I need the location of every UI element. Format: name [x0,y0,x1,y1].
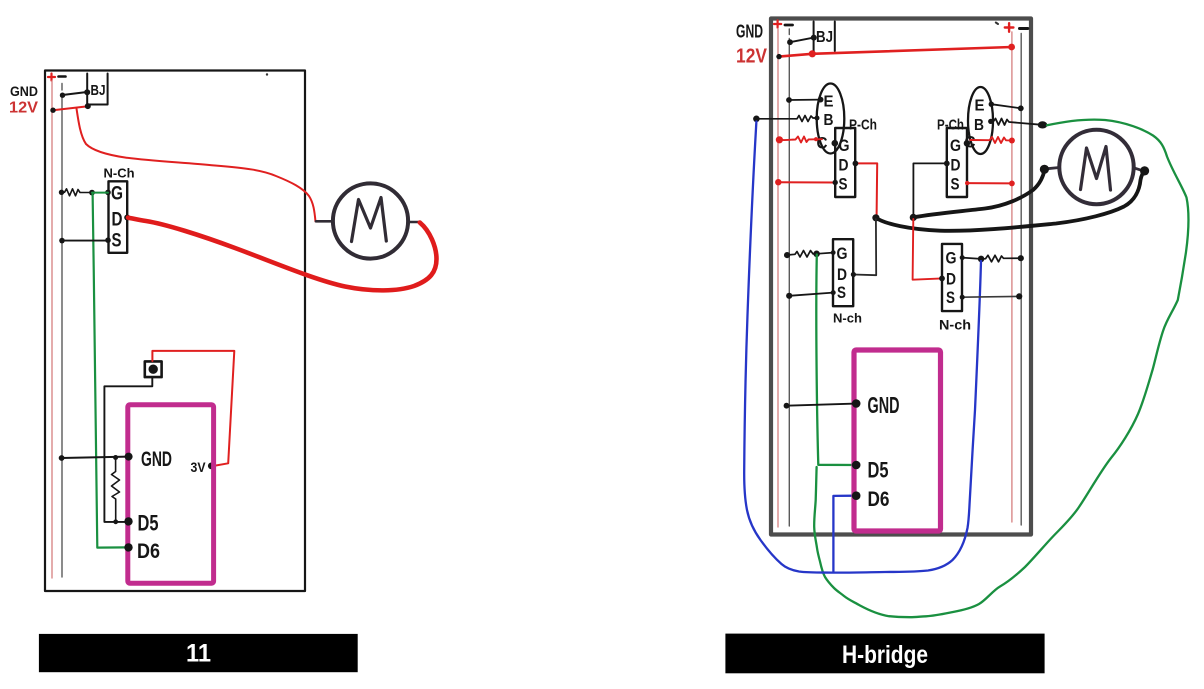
svg-text:E: E [975,98,985,115]
resistor R8 (gate) with wire to GND rail [962,255,1021,261]
junction dot (red) [1009,181,1015,187]
junction dot [784,252,790,258]
resistor R1 (gate) [62,189,93,196]
resistor R7 (gate) with wire to GND rail [787,251,833,258]
motor M glyph [352,198,387,242]
resistor R2 (pull-down) [112,458,120,522]
svg-text:N-ch: N-ch [833,311,862,326]
wire D to node B (red) [913,219,942,280]
svg-text:D6: D6 [868,488,890,511]
stray ink speck [996,23,998,25]
enclosure box (H-bridge) [771,19,1031,535]
svg-text:D: D [112,210,123,231]
svg-text:S: S [839,175,848,194]
wire GND rail to Arduino GND [787,404,857,406]
wire D to node A [853,219,876,275]
plus terminal mark (top-left) [774,20,781,27]
svg-text:12V: 12V [736,46,768,68]
junction dot (red) [814,137,818,141]
junction dot (resistor top) [113,455,118,460]
svg-text:S: S [112,231,122,252]
junction dot [84,89,90,95]
resistor R4 (collector, red) [779,137,822,143]
wire gate node to G (green) [92,192,108,194]
wire gate node to D6 (green) [93,193,126,548]
drain pin dot [124,215,130,221]
emitter pin dot [818,97,824,103]
motor M glyph [1081,147,1111,191]
junction dot (red) [809,50,816,57]
wire motor right terminal to drain (thick red) [128,218,437,291]
svg-text:N-Ch: N-Ch [104,166,135,181]
svg-text:B: B [974,117,984,134]
junction dot [786,293,792,299]
wire GND rail to E [789,99,821,101]
motor right terminal dot [1140,166,1149,175]
svg-text:GND: GND [868,392,900,418]
MOSFET Q6 body (left P-channel) [835,128,855,197]
svg-text:GND: GND [141,448,172,471]
minus terminal mark (top-left) [785,24,793,27]
D5 pin dot [124,517,132,525]
plus terminal mark (top-right) [1005,23,1014,32]
svg-text:G: G [946,249,957,268]
motor right lead [1134,168,1142,171]
junction dot [784,403,790,409]
svg-text:G: G [837,244,848,263]
junction dot [59,190,64,195]
svg-text:C: C [817,134,828,153]
svg-text:3V: 3V [191,459,207,475]
wire GND rail to Arduino GND [62,457,128,458]
svg-text:G: G [839,136,850,155]
wire node B to motor left terminal (thick) [913,170,1044,218]
junction dot (red rail) [776,136,783,143]
battery jack BJ (right) [814,22,835,52]
stray ink speck [266,73,268,75]
transistor Q3 (right PNP) body [968,87,993,154]
D6 pin dot [852,491,861,500]
MOSFET Q7 body (right P-channel) [947,128,967,197]
svg-text:H-bridge: H-bridge [842,641,928,669]
MOSFET Q5 body (right N-channel) [942,244,962,311]
source pin dot [105,237,111,243]
resistor R3 (base, with wire to blue node) [756,116,816,122]
drain pin dot [944,161,950,167]
junction dot (C to G) [832,140,839,147]
wire gate node to D5 (green) [816,255,856,466]
plus terminal mark (left) [48,74,55,81]
MOSFET Q4 body (left N-channel) [833,239,853,306]
GND pin dot [852,399,861,408]
caption bar H-bridge [725,634,1044,674]
junction dot [1018,105,1024,111]
junction dot (red rail) [1009,138,1015,144]
motor M (left) [333,183,408,258]
source pin dot [833,180,838,185]
node A (left bridge midpoint) [872,214,879,221]
svg-text:P-Ch: P-Ch [937,117,964,134]
svg-text:GND: GND [736,22,763,42]
enclosure box (left circuit) [45,71,305,592]
source pin dot [831,290,836,295]
junction dot [787,39,793,45]
Arduino board (magenta, right) [854,350,941,531]
12V bus wire across top (red) [779,47,1012,57]
svg-text:11: 11 [186,640,211,668]
source pin dot [960,295,965,300]
12V rail (red, right side) [1011,32,1013,522]
svg-text:D: D [837,265,847,284]
wire 12V rail to S (red) [778,181,835,183]
base pin dot [988,119,993,124]
wire GND rail to BJ [790,38,814,43]
node dot (blue net, left) [753,116,760,123]
svg-text:G: G [950,136,961,155]
motor left lead [1048,168,1060,169]
svg-text:S: S [946,288,955,307]
junction dot [776,54,781,59]
svg-text:D: D [946,270,956,289]
svg-text:B: B [824,112,834,129]
gate pin dot [105,190,111,196]
junction dot [50,108,55,113]
caption bar 11 [39,634,358,672]
junction dot [811,35,817,41]
drain pin dot [851,272,856,277]
junction dot (red) [965,181,969,185]
wire blue net (right gate node to left base node) [744,122,981,573]
3V pin dot [208,463,215,470]
battery jack BJ (left) [87,74,107,105]
pushbutton cap dot [149,365,158,374]
svg-text:D: D [839,156,849,175]
minus terminal mark (top-right) [1020,27,1028,30]
wire D6 to blue net (blue) [833,496,856,572]
junction dot [1018,255,1024,261]
node B (right bridge midpoint) [910,214,917,221]
wire 12V rail to BJ (red) [53,106,88,110]
gate node dot (green net) [813,251,820,258]
svg-text:BJ: BJ [816,29,833,46]
wire 12V to motor left terminal (red) [77,109,316,222]
motor right lead [408,221,419,224]
svg-text:D6: D6 [137,540,160,563]
motor left lead [316,220,333,223]
drain pin dot [853,161,859,167]
junction dot (resistor bottom) [113,519,118,524]
junction dot (red) [775,179,781,185]
junction dot [60,93,65,98]
junction dot (red) [1008,44,1015,51]
resistor R5 (base, with wire to green node) [991,119,1042,126]
emitter pin dot [989,102,994,107]
junction dot [85,103,91,109]
wire D to right mid node [913,163,946,215]
svg-text:D5: D5 [868,458,889,483]
GND rail (gray, right side) [1020,34,1022,526]
svg-text:S: S [951,175,960,194]
GND pin dot [125,453,133,461]
wire GND rail to S [62,240,108,242]
svg-text:P-Ch: P-Ch [849,117,877,134]
svg-text:G: G [111,184,123,205]
minus terminal mark (left) [59,75,66,78]
12V rail (red, left) [51,81,53,578]
motor M (right) [1059,130,1133,204]
resistor R6 (collector, red) [970,137,1010,143]
junction dot (gate node) [89,190,95,196]
motor left terminal dot [1040,165,1049,174]
gate node dot (blue net) [978,256,985,263]
wire green net loop (base node to D5 net) [814,120,1188,618]
wire S to 12V rail (red) [967,182,1012,184]
D5 pin dot [852,461,861,470]
junction dot [786,97,792,103]
junction dot [59,455,65,461]
svg-text:S: S [837,283,846,302]
wire S to GND rail [962,295,1019,298]
svg-text:D5: D5 [138,511,159,536]
GND rail (black, left) [61,84,63,578]
wire button to D5 [104,377,152,522]
wire S to GND rail [789,293,833,296]
D6 pin dot [124,543,132,551]
svg-text:GND: GND [10,83,38,99]
gate pin dot [831,250,836,255]
wire E to GND rail [991,104,1021,108]
junction dot [59,238,65,244]
node dot (green net, right) [1038,121,1048,128]
drain pin dot [939,276,945,282]
wire D to left mid node (red) [855,163,877,215]
wire button to 3V (red) [152,351,234,466]
wire node A to motor right terminal (thick) [876,171,1145,231]
transistor Q2 (left PNP) body [817,84,845,154]
svg-text:N-ch: N-ch [939,317,971,333]
base pin dot [815,116,820,121]
wire GND rail to BJ [63,92,88,95]
MOSFET Q1 body (N-channel) [109,181,128,253]
junction dot [1016,293,1022,299]
junction dot (C to G) [964,140,970,146]
12V rail (red, left side) [777,29,779,528]
GND rail (gray, left side) [788,29,790,526]
svg-text:BJ: BJ [91,82,106,99]
gate pin dot [960,255,965,260]
svg-text:12V: 12V [9,100,38,117]
svg-text:E: E [824,94,834,111]
pushbutton S1 [145,361,162,377]
Arduino board (magenta, left) [128,405,214,583]
svg-text:D: D [951,156,961,175]
